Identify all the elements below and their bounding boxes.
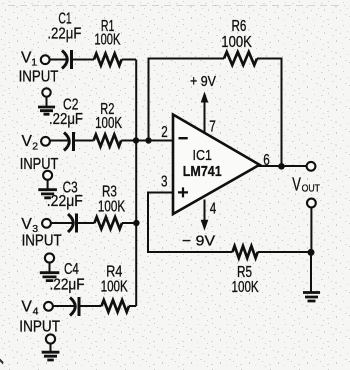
svg-text:R6: R6 xyxy=(232,18,247,35)
resistor R6 xyxy=(224,52,257,65)
svg-text:.22μF: .22μF xyxy=(47,26,81,43)
ground symbol G2 xyxy=(38,190,57,198)
wire pin6 to output terminal xyxy=(256,165,307,167)
label pin 7 xyxy=(209,119,216,136)
svg-text:.22μF: .22μF xyxy=(49,111,83,128)
label R2 value 100K xyxy=(95,115,122,132)
ground terminal below V4 input xyxy=(46,334,55,352)
resistor R1 xyxy=(94,54,122,66)
svg-text:6: 6 xyxy=(263,152,270,169)
label C3 value .22uF xyxy=(47,193,83,210)
label R2 xyxy=(100,101,114,118)
input terminal V2 xyxy=(41,137,50,146)
svg-text:V: V xyxy=(21,216,32,233)
label R5 value 100K xyxy=(232,279,259,296)
label R5 xyxy=(237,264,252,281)
svg-text:INPUT: INPUT xyxy=(19,69,59,86)
label R6 xyxy=(232,18,247,35)
label V4 xyxy=(21,298,38,317)
output terminal lower xyxy=(307,199,316,208)
svg-text:100K: 100K xyxy=(95,115,122,132)
arrowhead down -9V xyxy=(201,220,209,231)
label C3 xyxy=(63,179,78,196)
ground terminal below V2 input xyxy=(43,171,52,190)
svg-text:100K: 100K xyxy=(94,31,120,48)
svg-text:.22μF: .22μF xyxy=(47,193,83,210)
input terminal V3 xyxy=(42,219,51,228)
wire feedback net R6 top xyxy=(149,59,282,167)
label R1 value 100K xyxy=(94,31,120,48)
resistor R4 xyxy=(102,300,130,312)
svg-text:100K: 100K xyxy=(98,198,125,215)
arrowhead up +9V xyxy=(201,92,209,103)
label C1 xyxy=(58,10,71,27)
capacitor C1 xyxy=(62,50,72,69)
label IC1 xyxy=(193,147,213,164)
resistor R2 xyxy=(94,135,122,147)
ground symbol G1 xyxy=(38,107,55,114)
input terminal V4 xyxy=(44,302,53,311)
label LM741 xyxy=(183,163,222,180)
svg-text:INPUT: INPUT xyxy=(19,319,60,336)
label pin 4 xyxy=(210,200,217,217)
label pin 6 xyxy=(263,152,270,169)
svg-text:100K: 100K xyxy=(221,34,252,51)
label INPUT 2 xyxy=(20,156,59,173)
ground symbol G4 xyxy=(42,352,60,360)
junction node at bus / row3 xyxy=(133,220,139,226)
junction node at R6 leg / pin2 row xyxy=(145,137,151,143)
label R1 xyxy=(101,18,115,35)
svg-text:OUT: OUT xyxy=(302,182,321,194)
wire row3 from C3 to R3 to bus xyxy=(51,222,137,224)
label +9V xyxy=(190,74,216,90)
label R4 xyxy=(106,264,122,281)
pin 4 supply lead with arrow xyxy=(204,200,206,222)
op-amp U1 triangle xyxy=(173,115,260,215)
svg-text:4: 4 xyxy=(210,200,217,217)
ground terminal below V3 input xyxy=(45,253,54,272)
label INPUT 3 xyxy=(22,233,62,250)
op-amp minus sign pin2 xyxy=(179,137,188,139)
op-amp plus sign pin3 xyxy=(178,187,188,197)
wire pin3 net to R5 and ground junction xyxy=(148,193,311,253)
svg-text:100K: 100K xyxy=(232,279,259,296)
label INPUT 4 xyxy=(19,319,60,336)
label pin 2 xyxy=(161,124,168,141)
label R6 value 100K xyxy=(221,34,252,51)
svg-text:4: 4 xyxy=(33,305,39,317)
label C2 xyxy=(63,97,78,114)
svg-text:V: V xyxy=(22,133,33,150)
svg-text:− 9V: − 9V xyxy=(182,234,215,250)
svg-text:LM741: LM741 xyxy=(183,163,222,180)
label R3 value 100K xyxy=(98,198,125,215)
svg-text:IC1: IC1 xyxy=(193,147,213,164)
pin 7 supply lead with arrow xyxy=(204,101,206,133)
capacitor C3 xyxy=(68,214,77,233)
scan smudge bottom-left corner xyxy=(0,359,4,365)
svg-text:INPUT: INPUT xyxy=(22,233,62,250)
svg-text:2: 2 xyxy=(161,124,168,141)
faint scan line at top edge xyxy=(8,5,345,7)
label V3 xyxy=(21,216,38,235)
label C4 xyxy=(64,261,79,278)
wire row1 from C1 to R1 and to summing bus xyxy=(50,59,136,61)
label C1 value .22uF xyxy=(47,26,81,43)
svg-text:INPUT: INPUT xyxy=(20,156,59,173)
svg-text:1: 1 xyxy=(31,57,37,69)
svg-text:7: 7 xyxy=(209,119,216,136)
label -9V xyxy=(182,234,215,250)
label R3 xyxy=(102,184,117,201)
input terminal V1 xyxy=(41,55,50,64)
ground symbol G3 xyxy=(40,273,60,281)
svg-text:2: 2 xyxy=(32,140,38,152)
svg-text:+ 9V: + 9V xyxy=(190,74,216,90)
label VOUT xyxy=(292,174,320,195)
svg-text:.22μF: .22μF xyxy=(50,276,85,293)
capacitor C4 xyxy=(70,297,79,316)
wire output lower terminal to ground junction xyxy=(310,207,312,291)
svg-text:V: V xyxy=(292,174,301,195)
label C4 value .22uF xyxy=(50,276,85,293)
wire summing bus vertical xyxy=(135,60,137,307)
ground terminal below V1 input xyxy=(42,88,50,107)
label INPUT 1 xyxy=(19,69,59,86)
wire row4 from C4 to R4 to bus xyxy=(53,305,136,307)
junction node at bus / pin2 row xyxy=(133,137,139,143)
junction node at ground / R5 xyxy=(308,249,315,256)
resistor R3 xyxy=(94,217,122,229)
ground symbol at output xyxy=(303,293,320,302)
junction node at R6 leg / output xyxy=(278,163,285,170)
svg-text:3: 3 xyxy=(161,173,168,190)
svg-text:V: V xyxy=(21,50,32,67)
svg-text:V: V xyxy=(21,298,32,315)
label V1 xyxy=(21,50,37,69)
svg-text:100K: 100K xyxy=(101,278,128,295)
label R4 value 100K xyxy=(101,278,128,295)
label pin 3 xyxy=(161,173,168,190)
capacitor C2 xyxy=(64,132,74,151)
wire row2 from C2 through node to op-amp pin 2 xyxy=(50,140,174,142)
label C2 value .22uF xyxy=(49,111,83,128)
label V2 xyxy=(22,133,39,152)
output terminal upper xyxy=(307,162,316,171)
resistor R5 xyxy=(233,246,258,258)
